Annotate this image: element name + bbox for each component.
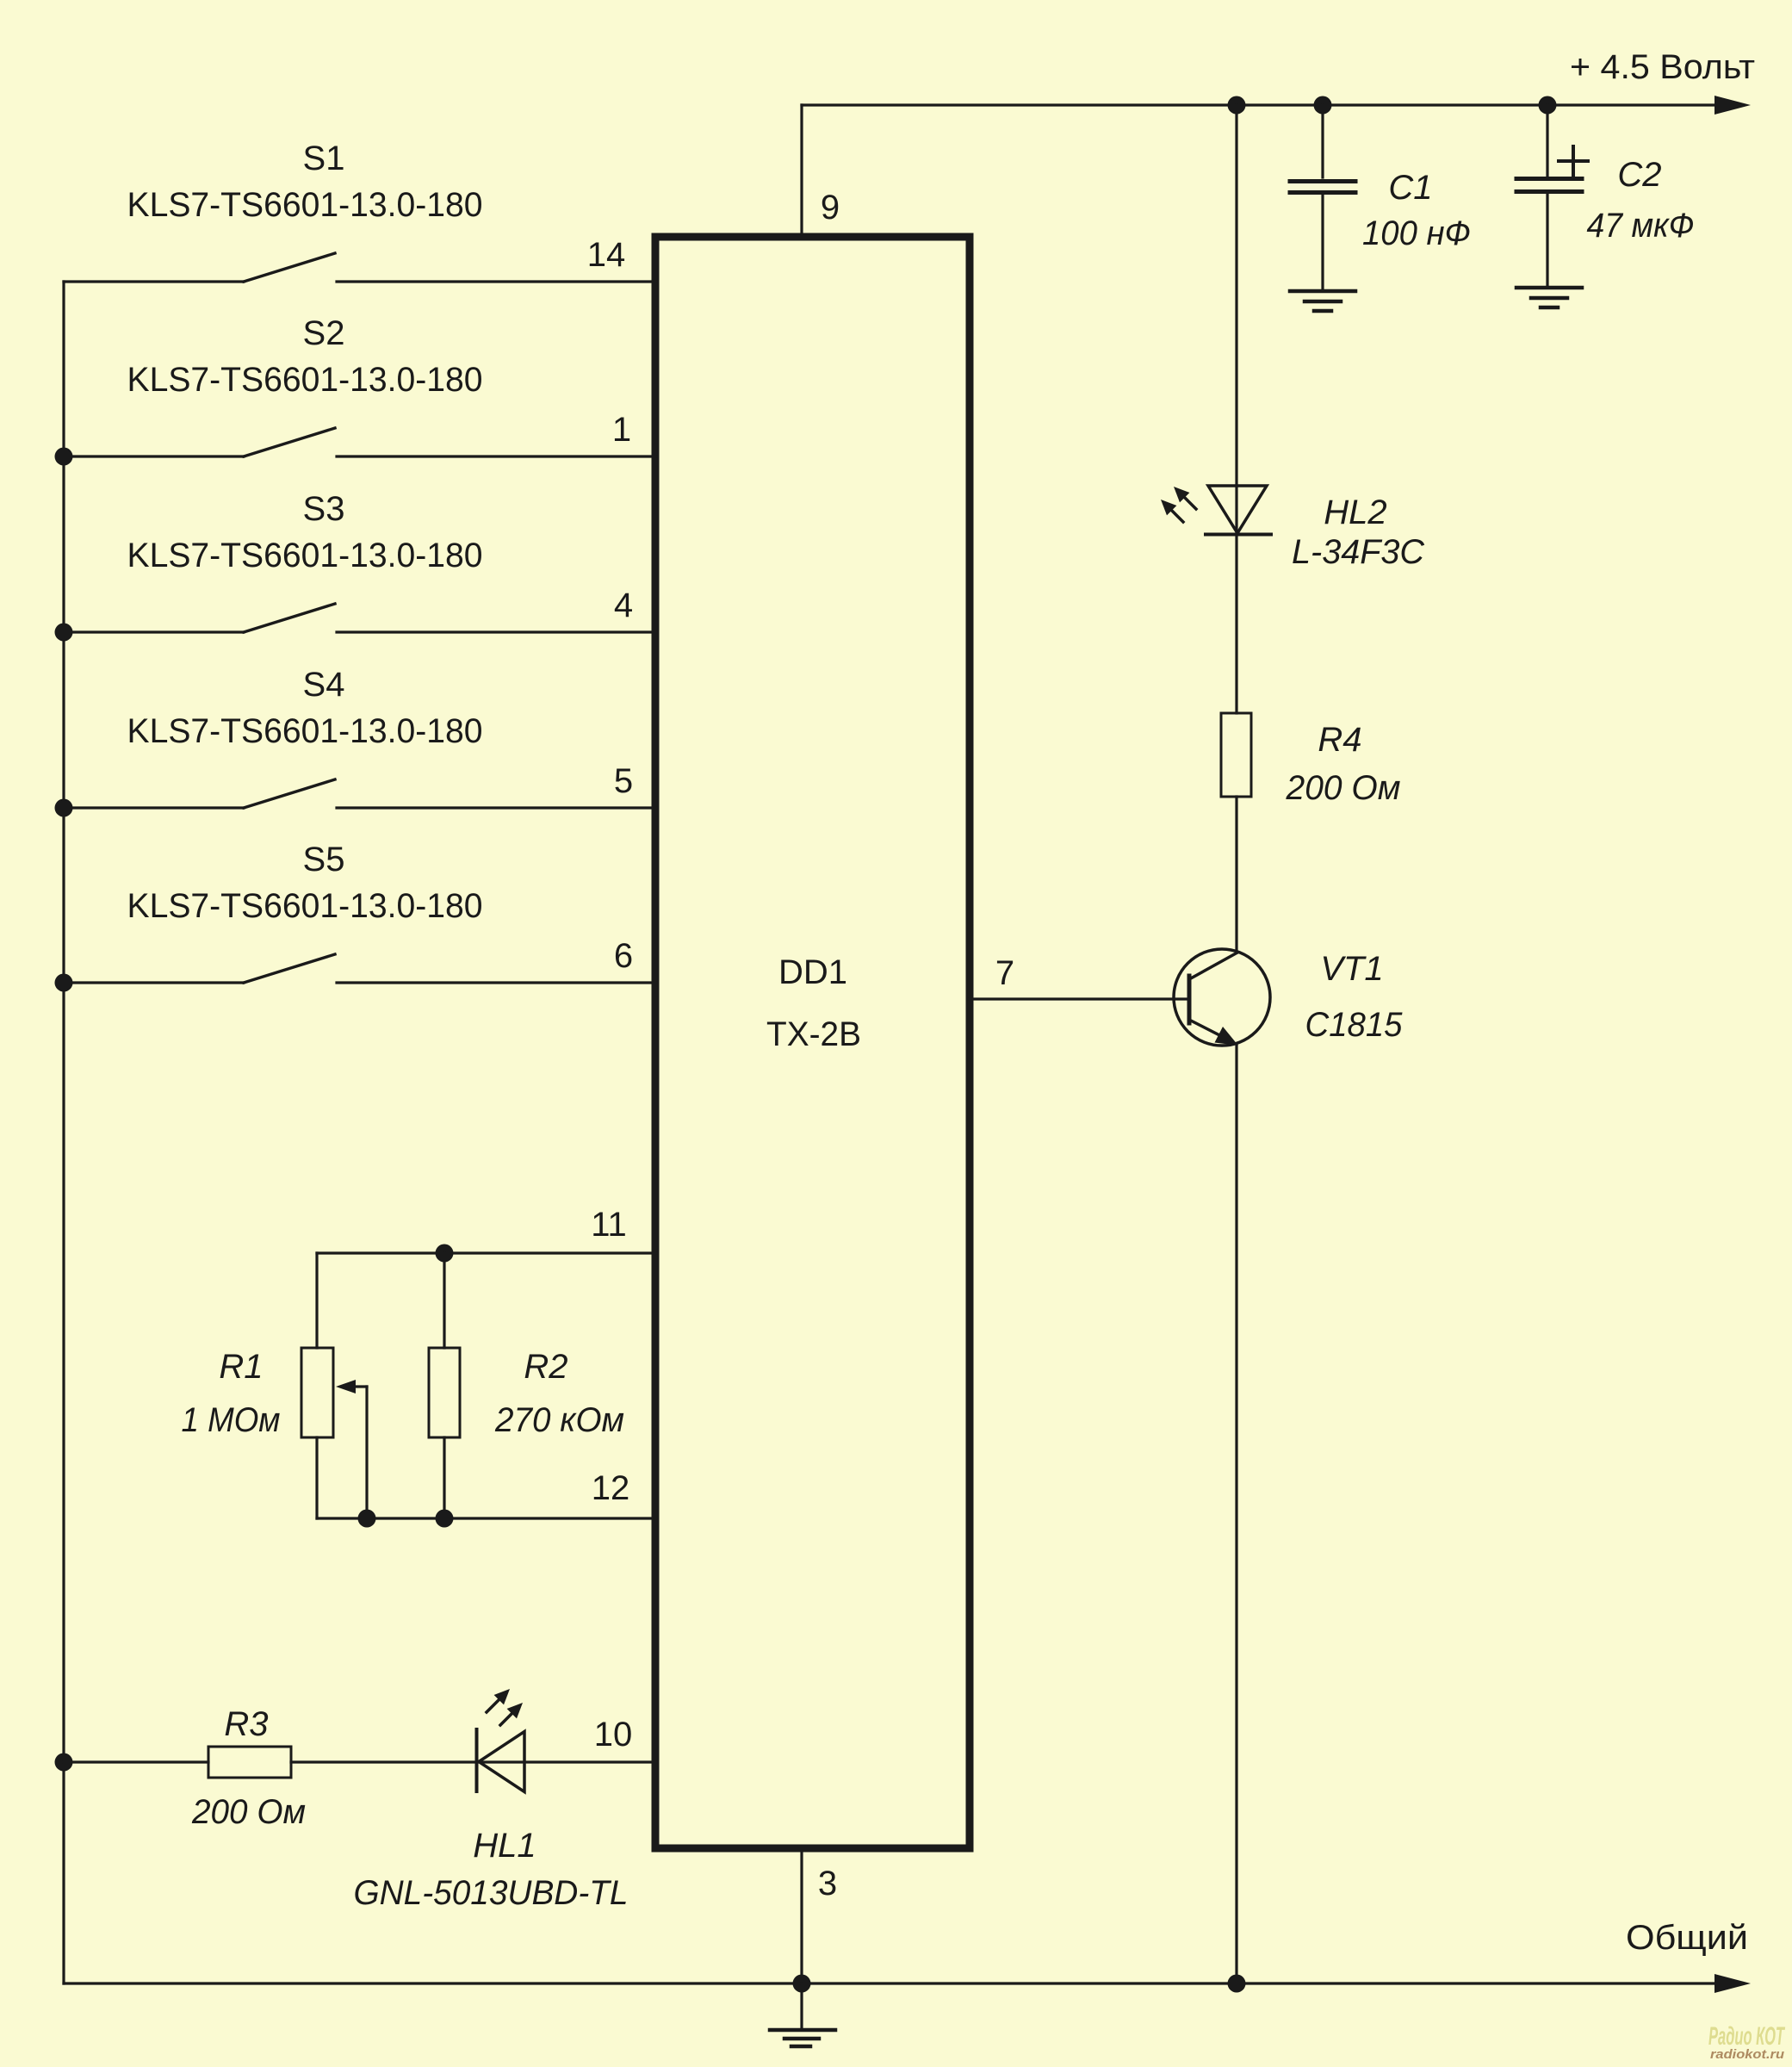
svg-text:S5: S5: [303, 841, 345, 878]
switch S5 KLS7-TS6601-13.0-180 (pin 6): [64, 841, 655, 983]
svg-text:14: 14: [587, 236, 626, 274]
svg-text:S4: S4: [303, 666, 345, 704]
svg-text:R2: R2: [524, 1348, 567, 1386]
wire HL2 to R4: [1235, 536, 1237, 713]
svg-text:1 МОм: 1 МОм: [182, 1401, 281, 1439]
capacitor C1 100 нФ: [1290, 105, 1471, 289]
label +4.5 Вольт: [1570, 48, 1755, 86]
resistor R3 200 Ом: [64, 1705, 306, 1831]
junction node bus/S3: [55, 624, 73, 642]
switch S3 KLS7-TS6601-13.0-180 (pin 4): [64, 490, 655, 632]
wire bottom common rail: [64, 1974, 1751, 1993]
junction node rail/C2: [1539, 96, 1557, 115]
svg-text:6: 6: [614, 937, 633, 975]
svg-text:radiokot.ru: radiokot.ru: [1710, 2047, 1784, 2062]
svg-text:HL2: HL2: [1324, 493, 1386, 531]
junction node bus/pin10 wire: [55, 1754, 73, 1772]
svg-text:+ 4.5 Вольт: + 4.5 Вольт: [1570, 48, 1755, 86]
svg-text:100 нФ: 100 нФ: [1362, 214, 1471, 252]
svg-text:4: 4: [614, 587, 633, 624]
svg-text:C1815: C1815: [1305, 1006, 1404, 1044]
junction node pin12/R1 wiper: [358, 1510, 376, 1528]
junction node pin11/R2: [436, 1245, 454, 1263]
svg-text:C1: C1: [1388, 169, 1432, 207]
svg-text:S2: S2: [303, 314, 345, 352]
resistor R4 200 Ом: [1221, 713, 1401, 807]
wire left bus: [62, 282, 65, 1983]
junction node rail/pin3 ground: [793, 1975, 811, 1993]
svg-text:DD1: DD1: [778, 953, 847, 991]
svg-text:GNL-5013UBD-TL: GNL-5013UBD-TL: [354, 1874, 629, 1912]
svg-text:S1: S1: [303, 140, 345, 177]
wire pin 11: [317, 1206, 655, 1253]
svg-text:7: 7: [995, 954, 1014, 992]
label Общий: [1626, 1919, 1748, 1957]
svg-text:270 кОм: 270 кОм: [494, 1401, 624, 1439]
capacitor C2 47 мкФ (electrolytic, + marked): [1516, 105, 1695, 285]
LED HL1 GNL-5013UBD-TL: [354, 1689, 629, 1912]
svg-text:10: 10: [594, 1716, 633, 1754]
IC DD1 TX-2B: [655, 237, 970, 1848]
wire pin 10: [291, 1716, 655, 1762]
potentiometer R1 1 МОм: [182, 1253, 368, 1518]
ground symbol under C1: [1290, 291, 1355, 311]
svg-text:HL1: HL1: [473, 1827, 536, 1865]
svg-text:R3: R3: [224, 1705, 268, 1743]
junction node bus/S4: [55, 799, 73, 817]
svg-text:1: 1: [612, 411, 631, 449]
junction node bus/S5: [55, 974, 73, 992]
svg-text:TX-2B: TX-2B: [766, 1015, 861, 1053]
svg-text:12: 12: [592, 1469, 630, 1507]
wire pin 12: [317, 1469, 655, 1518]
svg-text:L-34F3C: L-34F3C: [1292, 533, 1425, 571]
svg-text:47 мкФ: 47 мкФ: [1587, 207, 1695, 245]
pin 3 stub: [802, 1852, 837, 1983]
junction node pin12/R2: [436, 1510, 454, 1528]
svg-text:KLS7-TS6601-13.0-180: KLS7-TS6601-13.0-180: [127, 712, 483, 750]
junction node rail/VT1 emitter: [1228, 1975, 1246, 1993]
wire VT1 emitter to common rail: [1235, 1045, 1237, 1983]
svg-text:R1: R1: [219, 1348, 263, 1386]
svg-text:11: 11: [591, 1206, 627, 1244]
svg-text:9: 9: [821, 189, 840, 227]
svg-text:Общий: Общий: [1626, 1919, 1748, 1957]
svg-text:200 Ом: 200 Ом: [1286, 769, 1401, 807]
wire R4 to VT1 collector: [1235, 797, 1237, 953]
svg-text:5: 5: [614, 762, 633, 800]
ground symbol at pin 3: [770, 1983, 835, 2046]
svg-text:C2: C2: [1617, 156, 1661, 194]
LED HL2 L-34F3C: [1161, 486, 1425, 571]
svg-text:200 Ом: 200 Ом: [191, 1793, 306, 1831]
svg-text:KLS7-TS6601-13.0-180: KLS7-TS6601-13.0-180: [127, 186, 483, 224]
resistor R2 270 кОм: [429, 1253, 624, 1518]
svg-text:3: 3: [818, 1865, 837, 1903]
transistor VT1 C1815 (NPN): [1174, 949, 1403, 1046]
watermark РадиоКОТ radiokot.ru: [1708, 2022, 1785, 2062]
wire +4.5V power rail: [802, 96, 1751, 115]
switch S4 KLS7-TS6601-13.0-180 (pin 5): [64, 666, 655, 808]
svg-text:S3: S3: [303, 490, 345, 528]
svg-text:KLS7-TS6601-13.0-180: KLS7-TS6601-13.0-180: [127, 887, 483, 925]
wire VT1 collector line from rail: [1235, 105, 1237, 534]
svg-text:KLS7-TS6601-13.0-180: KLS7-TS6601-13.0-180: [127, 537, 483, 574]
ground symbol under C2: [1516, 288, 1582, 307]
junction node rail/C1: [1314, 96, 1332, 115]
svg-text:VT1: VT1: [1320, 950, 1383, 988]
svg-text:KLS7-TS6601-13.0-180: KLS7-TS6601-13.0-180: [127, 361, 483, 399]
wire pin 7 (base): [970, 954, 1189, 999]
svg-text:R4: R4: [1318, 721, 1361, 759]
switch S1 KLS7-TS6601-13.0-180 (pin 14): [64, 140, 655, 282]
pin 9 stub: [802, 105, 840, 233]
junction node bus/S2: [55, 448, 73, 466]
junction node rail/VT1 collector line: [1228, 96, 1246, 115]
switch S2 KLS7-TS6601-13.0-180 (pin 1): [64, 314, 655, 456]
